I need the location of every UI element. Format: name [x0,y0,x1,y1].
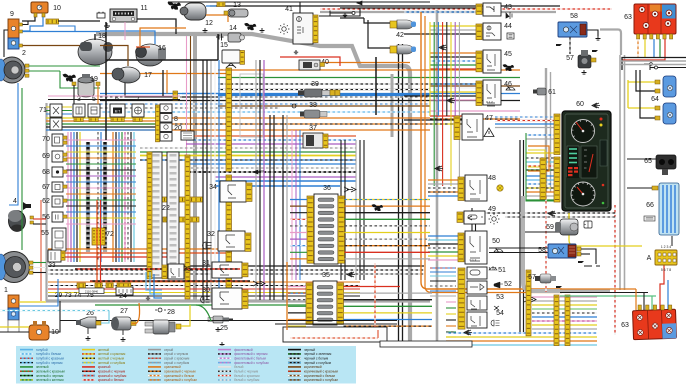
ground 42 [343,13,347,17]
relay 34 [220,181,246,202]
wire vertical right edge to connector A [671,236,673,246]
ignition coil 10 [31,2,48,13]
wiper symbol 46 [506,86,515,90]
sensor 57 lower [535,274,556,283]
wire black bus above legend 2 [275,323,397,325]
fuse 3 [73,104,85,117]
relay 44 [483,23,501,40]
radio receiver 11 [110,9,137,22]
wire orange from sensor 40 [322,62,410,64]
arrow symbol right of 35 [524,297,536,302]
wire gray loom right lower [523,196,610,291]
relay 45 [483,50,501,73]
connector strip bottom right 1 [554,295,559,346]
wire brown vertical left-center [190,36,192,135]
ignition distributor 19 [78,74,94,97]
wire violet row above 34 [215,176,356,178]
relay 50 [465,231,487,264]
connector strip cluster mid [540,158,546,199]
switch 55 [52,228,66,251]
connector strip x227 [226,68,232,171]
heater radiator 66 [659,183,679,235]
connector pins 28 [176,324,181,329]
horn relay 17 [112,67,140,83]
wire blue thick center [218,94,430,96]
wire black starter [94,34,96,40]
arrow symbol below cluster [548,211,556,216]
svg-text:25: 25 [220,325,228,332]
svg-text:8: 8 [174,116,178,123]
svg-text:68: 68 [42,169,50,176]
connector pins 39 [330,90,335,96]
connector pins 43 [476,4,482,14]
connector strip x150 pins [147,152,152,279]
svg-text:57: 57 [566,55,574,62]
wire top red bus with white dash [320,8,612,10]
relay 51 [467,267,487,279]
ground top center 2 [260,28,265,32]
wire yellow riser 28 [181,305,190,326]
ground symbol 24 [146,296,150,300]
wire red-dash vertical right [614,205,616,335]
wire gray vertical loom right of cluster [619,55,621,290]
wire 42b feed [368,20,390,48]
washer pump 13 [228,9,248,17]
svg-text:0 1 2: 0 1 2 [470,258,477,262]
wire left edge vertical green [21,88,23,250]
svg-text:70: 70 [42,136,50,143]
wire black dash below cluster 2 [505,216,616,218]
relay 7 [132,104,144,117]
svg-text:M T: M T [115,110,120,114]
ground flag 58 lower [578,261,584,263]
wire blue mid [100,31,155,44]
relay 43 [483,3,501,16]
wire gray vertical loom x195 [193,36,197,300]
sensor 27 [111,317,131,335]
connector pins 50 [458,233,464,262]
wire horn to junction [125,83,172,97]
svg-text:64: 64 [651,96,659,103]
connector pins 58 lower [577,247,581,251]
connector pins 47 [454,116,460,140]
wire orange riser to 35 [286,262,288,330]
connector pins 45 [476,51,482,72]
svg-text:45: 45 [504,51,512,58]
svg-text:60: 60 [576,101,584,108]
ground 26 [86,336,91,340]
svg-text:56: 56 [42,214,50,221]
wire bundle to relay 47 [430,115,476,117]
connector pins 5 [89,118,98,122]
relay 69 [52,151,63,162]
main connector block 35 [313,281,337,325]
switch 68 [52,167,63,177]
relay 53 [467,296,487,310]
wire descenders right of block 36 [340,140,342,280]
wire pink vertical 12 area [124,22,126,40]
wire red risers engine row [96,200,98,284]
svg-text:63: 63 [621,322,629,329]
vertical wires center-right [291,130,293,280]
svg-text:47: 47 [485,115,493,122]
connector pins 7 [133,118,142,122]
svg-text:24: 24 [119,293,127,300]
svg-text:38: 38 [309,102,317,109]
svg-text:52: 52 [504,281,512,288]
wire bundle left horizontal crossings [66,139,136,141]
arrow left of 34 [253,170,264,174]
relay 46 [483,80,501,105]
wire 58 to ground [587,30,598,36]
svg-text:48: 48 [488,175,496,182]
relay 58 lower [548,244,576,258]
arrow top center [357,1,368,5]
fuse 5 [88,104,100,117]
svg-text:43: 43 [504,4,512,11]
relay 37 [303,133,323,148]
coil symbol 28 [155,308,166,312]
wire black frame bottom dashed [48,265,424,267]
main connector block 36 [314,194,338,264]
svg-text:15: 15 [220,42,228,49]
wires from fuse box 63 top [637,39,639,57]
connector pins 40 [320,63,325,67]
bulb symbol 48 [497,185,503,191]
connector pins 8 [156,105,160,142]
wire black pair from relay 58 lower [489,247,548,249]
wire bundle center rows 133-172 [186,135,356,137]
wire top black bus 2 [210,5,560,7]
wire red vertical left [40,200,42,301]
svg-text:57: 57 [528,274,536,281]
wire to buzzer 59 [525,231,560,233]
wire headlamp 2 feeds [29,65,100,67]
wire bundle into instrument cluster lower [526,134,555,136]
wire loop symbol top [330,12,352,14]
connector pins 51-54 [458,268,465,329]
wire bundle to relays 51-54 [430,267,456,269]
connector pins 44 [476,24,482,40]
wire black vertical pair x520 [519,140,521,332]
arrow below 50 [468,216,472,220]
wire thick gray dashed column 1 [86,142,90,252]
voltage regulator 9 [8,19,19,38]
buzzer 59 [555,219,578,235]
connector pins 19 [72,82,76,86]
svg-text:белый с голубым: белый с голубым [234,378,259,382]
ground flag 57 lower [556,286,562,288]
wire white rows center [100,96,430,98]
connector pair 29 [77,283,85,288]
connector pins 33 [61,251,65,260]
wire checkered red-black upper [75,268,240,270]
connector pins 35 left [306,283,313,324]
wire blue rows above 34 [215,180,356,182]
svg-text:54: 54 [496,310,504,317]
flasher 65 [656,155,676,175]
relay 33 box [48,250,61,262]
bracket outline center [240,74,263,137]
connector strip cluster left lower [554,157,560,202]
wire relay 9 to junction [23,21,29,25]
relay 54 [467,312,487,328]
fan motor icon top [168,2,182,10]
ignition coil 10 lower [29,321,49,340]
wire bundle into instrument cluster upper [495,116,555,118]
arrows symbol 53 [494,306,499,310]
fan icon center [372,204,384,211]
relay 48 [465,175,487,201]
svg-text:красный с белым: красный с белым [98,378,124,382]
wire lightblue engine bend [146,272,162,290]
horn symbol 52 [494,282,503,288]
lamp 64a [663,76,676,97]
svg-text:59: 59 [546,224,554,231]
wiper symbol 50 [494,248,503,252]
wires out 36 right [345,199,431,201]
wire orange stub left [100,73,230,75]
fan icon small 2 [244,23,256,30]
wire black bus above legend [60,320,397,322]
svg-text:27: 27 [120,308,128,315]
svg-text:49: 49 [488,206,496,213]
wire yellow loop cluster [528,150,545,167]
connector pins headlamp 2 [25,64,29,67]
relay 52 [467,281,487,294]
cigarette lighter 42a [390,20,416,29]
relay 32 [218,231,245,251]
sun symbol 41 [279,24,290,35]
ground 41 [294,50,298,54]
wire bundle left vertical [67,132,69,262]
wire harness top gray loom [96,34,410,345]
wire seals 35 [317,286,333,289]
svg-text:22: 22 [162,205,170,212]
connector pins 69 [63,153,67,156]
connector block 21 dashed [150,152,162,278]
wire thick gray dashed column 2 [103,142,107,252]
connector pins 37 [323,134,328,148]
connector pins 15 [240,51,245,65]
arrow symbol near 60 [592,103,600,108]
wire red generator to right [280,57,340,66]
svg-text:67: 67 [42,184,50,191]
ground radio 11 [104,23,110,28]
connector pins 6 [111,118,124,122]
connector pins 31 [242,263,248,277]
spark plug 25 [208,316,233,323]
wire bundle to relay 43 [340,7,476,9]
connector pins 36 left [307,196,314,263]
wire motor 12 orange [206,15,228,22]
svg-text:39: 39 [311,81,319,88]
svg-text:42: 42 [396,32,404,39]
wire junction to right [58,20,100,22]
arrow left of 48 [435,166,443,171]
connector pins 70 [63,136,67,139]
svg-text:1 2 3 4: 1 2 3 4 [661,245,671,249]
svg-text:коричневый с голубым: коричневый с голубым [304,378,338,382]
wire black frame below 63 [622,58,686,71]
wire brown center [218,105,430,107]
relay 70 [52,134,63,146]
arrow left of 44 [439,45,447,50]
speaker symbol 43 [506,12,512,19]
svg-text:31: 31 [202,260,210,267]
wire 58 lower to ground [581,249,596,264]
fuse box 63 lower [633,309,677,339]
svg-text:62: 62 [42,198,50,205]
connector strip right of 51-54 [526,270,531,336]
wire black top-left area [48,99,180,101]
wire orange horizontal pair middle-left [48,248,232,250]
headlight symbol 30 [201,296,210,303]
wire gray vertical loom center-right [436,10,439,345]
relay 23 [168,264,184,279]
arrow left of 46 [447,98,455,103]
svg-text:63: 63 [624,14,632,21]
connector pins 34 [246,183,252,201]
svg-text:4: 4 [13,198,17,205]
wire generator drop [162,70,164,96]
relay 30 [212,288,242,309]
wire from radio 11 to harness [115,19,176,34]
wire bundle lower center to block 24 [48,281,360,283]
wire black jumper top right [658,67,686,69]
connector motor 12 [217,2,225,7]
vertical wires center-left [202,60,204,300]
svg-text:0 1 2: 0 1 2 [486,100,493,104]
connector pair 73 [95,283,102,288]
wire 65 feed [627,158,656,160]
wire orange curve 27 [132,303,140,324]
wire gray corner into loom right [600,30,621,56]
connector pins 23 [162,265,167,279]
svg-text:28: 28 [167,309,175,316]
svg-text:13: 13 [233,2,241,9]
wires bottom-left engine [19,301,46,303]
relay 58 top [558,22,587,37]
connector pins headlamp lower [29,261,33,264]
wire black vertical from harness corner [375,57,377,115]
wire motor 12 blue [206,5,216,7]
connector pins 56 [63,215,67,218]
wire red dash vertical x546 [545,196,547,292]
connector strip horizontal left 1 [158,197,203,202]
connector pins 32 [245,233,251,251]
connector pins 67 [63,185,67,188]
wire bundle to relay 46 [430,83,476,85]
wire black dash bus y274 [48,273,424,275]
svg-text:10: 10 [53,5,61,12]
ground symbol bottom center [220,342,225,346]
switch 56 [52,212,63,222]
connector block 24 [116,287,133,295]
arrow symbol below 51-54 [464,330,472,335]
svg-text:55: 55 [41,230,49,237]
svg-text:53: 53 [496,294,504,301]
wire green to plug 25 [196,305,211,321]
wire yellow riser 64 [627,80,629,108]
washer symbol 51 [489,266,497,270]
wire gray top right [620,60,686,62]
svg-text:58: 58 [570,13,578,20]
wire top gray pair right [320,11,556,13]
injector 39 [298,89,330,97]
vertical wires center black pair [269,115,271,300]
connector pins 63 top [637,34,640,39]
legend entries [20,349,33,351]
connector pins relay 9 [19,23,23,26]
arrow symbol below 36 [347,272,355,277]
ground 27 [121,337,126,341]
svg-text:66: 66 [646,202,654,209]
svg-text:61: 61 [548,89,556,96]
wire bundle center horizontal [218,69,430,71]
type plate 75 [79,288,104,294]
wire bundle diagonal left of relays [429,22,431,116]
wiper symbol 15 [226,63,236,68]
wires into 35 left [288,286,306,288]
relay 71 upper [50,104,62,117]
coil symbol 38 [292,104,296,108]
connector pins 64b [655,106,660,110]
svg-text:32: 32 [207,231,215,238]
wire feeds lamp 64a [628,81,655,83]
connector pins horn junction [173,91,178,100]
svg-text:37: 37 [309,125,317,132]
connector pins 48 [458,177,464,201]
fan icon distributor [63,74,77,82]
starter 18 [78,39,113,65]
wire bundle to relay 44 [430,25,476,27]
cigarette lighter 42b [390,45,416,54]
arrow below 31 [253,281,265,286]
regulator 1 [8,295,19,308]
connector strip bottom right 2 [565,295,570,346]
wire orange-red dash inside housing [290,337,378,339]
washer reservoir 15 [222,50,240,63]
wire green wrap around cluster bundle [526,133,557,201]
svg-text:51: 51 [498,267,506,274]
svg-text:41: 41 [285,6,293,13]
connector 72 [92,228,105,245]
relay 49 [464,211,485,224]
lamp symbol 54 [491,320,500,326]
svg-text:35: 35 [322,272,330,279]
wire black dash below cluster [470,212,616,214]
connector pair 74 [106,283,113,288]
body separator gray bottom [46,299,430,302]
connector A [655,250,677,265]
svg-text:1: 1 [4,287,8,294]
injector 38 [300,110,327,118]
wire 66 feed [627,187,652,189]
wire headlamp lower feeds [33,262,46,264]
wire top black bus [168,1,430,3]
sun symbol 49 [489,214,500,225]
svg-text:44: 44 [504,23,512,30]
svg-text:9: 9 [10,11,14,18]
fuse box 63 top [634,4,676,34]
svg-text:2: 2 [22,50,26,57]
connector pins 36 right [338,196,345,263]
connector pins 46 [476,81,482,106]
svg-text:16: 16 [158,45,166,52]
ground top center [203,28,208,32]
svg-text:17: 17 [144,72,152,79]
